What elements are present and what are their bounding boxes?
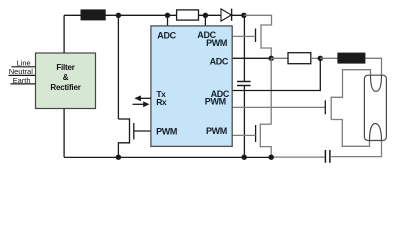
wire node C to MCU ADC pin: [204, 15, 206, 26]
wire node HB down to Q3 drain: [270, 58, 272, 124]
wire Q3 gate to MCU PWM pin: [232, 134, 256, 136]
wire Q2 gate to MCU PWM pin: [232, 35, 255, 37]
node Line: [12, 59, 36, 68]
wire filter bottom to ground rail: [63, 109, 65, 158]
svg-text:ADC: ADC: [210, 56, 229, 66]
node C junction: [203, 13, 208, 18]
node Earth: [11, 76, 36, 85]
wire C2 to lamp bottom filament right leg: [330, 140, 382, 157]
transistor Q3 (low-side MOSFET): [256, 124, 272, 158]
fluorescent lamp tube: [364, 75, 386, 140]
wire node E to inductor L2: [320, 57, 337, 59]
ground rail: [64, 156, 271, 158]
svg-text:ADC: ADC: [157, 30, 176, 40]
diode D1: [221, 9, 232, 22]
svg-text:Filter: Filter: [56, 63, 74, 72]
wire Q4 source to lamp bottom filament left leg: [331, 120, 369, 147]
node H junction: [269, 155, 274, 160]
ground rail gray segment to C2: [271, 156, 325, 158]
node B junction: [165, 13, 170, 18]
node A junction: [116, 13, 121, 18]
lamp bottom filament: [370, 124, 382, 141]
wire DC bus down to capacitor C1: [243, 15, 245, 81]
wire Q1 gate to MCU PWM pin: [134, 130, 152, 132]
transistor Q2 (high-side MOSFET): [256, 24, 272, 58]
wire MCU ADC pin to node HB: [232, 57, 271, 59]
wire R2 to node E: [311, 57, 321, 59]
wire filter top to DC rail: [63, 15, 65, 53]
node HB junction: [269, 56, 274, 61]
wire node D to Q2 drain: [244, 15, 272, 25]
inductor L2: [337, 53, 365, 64]
node E junction: [318, 56, 323, 61]
wire node B to MCU ADC pin: [167, 15, 169, 26]
Tx arrow: [134, 95, 151, 101]
op-amp U1 MCU block: [151, 26, 232, 146]
wire C1 to ground rail: [243, 86, 245, 157]
Rx arrow: [133, 101, 150, 107]
svg-text:PWM: PWM: [206, 38, 227, 48]
wire node A down to Q1 drain: [117, 15, 119, 119]
wire top rail: [64, 14, 244, 16]
wire L2 to lamp top filament right leg: [365, 58, 381, 76]
svg-text:Rx: Rx: [156, 97, 167, 107]
resistor R1: [177, 10, 199, 20]
node Neutral: [9, 67, 36, 76]
wire Q4 drain to lamp top filament left leg: [331, 70, 370, 98]
transistor Q4 (preheat MOSFET): [325, 97, 331, 120]
svg-text:&: &: [63, 73, 69, 82]
filter block: Filter & Rectifier: [36, 53, 96, 109]
capacitor C2 (DC blocking): [325, 150, 330, 163]
inductor L1: [81, 9, 106, 20]
wire node E feedback to MCU ADC pin: [232, 58, 320, 90]
svg-text:PWM: PWM: [205, 97, 226, 107]
node G junction: [242, 155, 247, 160]
node D junction (DC bus): [241, 13, 246, 18]
wire Q4 gate from MCU PWM pin: [232, 106, 325, 108]
wire node HB to resistor R2: [271, 57, 288, 59]
resistor R2: [288, 53, 311, 64]
svg-text:Rectifier: Rectifier: [50, 83, 80, 92]
transistor Q1 (PFC MOSFET): [118, 118, 133, 157]
capacitor C1 (DC bus): [237, 82, 251, 86]
lamp top filament: [371, 75, 382, 91]
node F junction: [116, 155, 121, 160]
svg-text:PWM: PWM: [206, 126, 227, 136]
svg-text:Earth: Earth: [13, 76, 31, 85]
svg-text:PWM: PWM: [156, 126, 177, 136]
